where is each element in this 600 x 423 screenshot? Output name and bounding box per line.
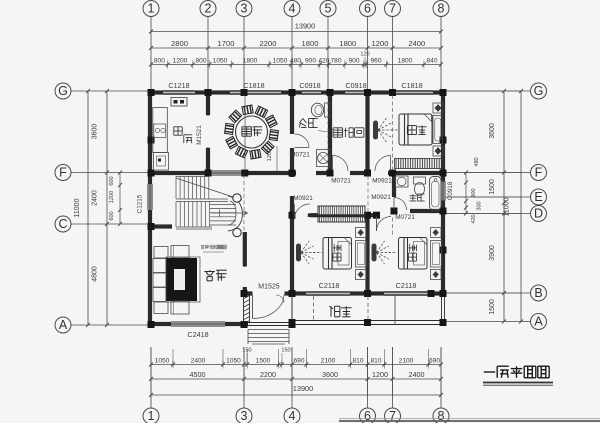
right axis circle E bbox=[446, 196, 531, 198]
bed1 wardrobe bbox=[356, 241, 367, 268]
top axis line 1 bbox=[150, 17, 152, 95]
svg-text:8: 8 bbox=[438, 2, 445, 16]
svg-text:3600: 3600 bbox=[92, 124, 99, 140]
svg-text:1500: 1500 bbox=[489, 179, 496, 195]
bottom axis line 6 bbox=[367, 347, 369, 408]
svg-text:C2118: C2118 bbox=[319, 281, 340, 290]
kitchen range hood bbox=[171, 98, 187, 107]
svg-text:2400: 2400 bbox=[191, 357, 206, 364]
right axis circle F bbox=[446, 172, 531, 174]
svg-text:C0918: C0918 bbox=[299, 81, 320, 90]
svg-text:F: F bbox=[535, 166, 543, 180]
svg-text:1: 1 bbox=[148, 409, 155, 423]
svg-text:M0921: M0921 bbox=[293, 195, 313, 202]
svg-text:900: 900 bbox=[471, 188, 477, 197]
svg-text:1200: 1200 bbox=[372, 370, 388, 379]
kitchen counter bbox=[153, 108, 168, 153]
svg-text:C1218: C1218 bbox=[168, 81, 189, 90]
svg-text:A: A bbox=[59, 318, 68, 332]
svg-text:M1525: M1525 bbox=[258, 284, 280, 291]
photo bottom edge line bbox=[339, 420, 600, 422]
bath door arc bbox=[295, 147, 310, 149]
svg-text:6: 6 bbox=[364, 2, 371, 16]
svg-text:120: 120 bbox=[360, 52, 369, 58]
master bath toilet bbox=[414, 177, 426, 184]
bottom dim row groups bbox=[151, 378, 441, 380]
bed2 nightstand a bbox=[431, 228, 442, 238]
svg-text:D: D bbox=[534, 207, 543, 221]
wall A row with window C2418 bbox=[148, 322, 171, 326]
axis 3 line through dining bbox=[244, 95, 246, 171]
svg-text:2100: 2100 bbox=[321, 357, 336, 364]
svg-text:1800: 1800 bbox=[339, 39, 356, 48]
svg-text:150: 150 bbox=[281, 348, 290, 354]
bottom axis line 3 bbox=[243, 347, 245, 408]
svg-text:C2418: C2418 bbox=[187, 330, 208, 339]
top axis line 7 bbox=[392, 17, 394, 95]
porch divider bbox=[291, 295, 293, 320]
bed2 door arc bbox=[376, 217, 378, 232]
staircase upper flight bbox=[175, 177, 177, 200]
bottom axis line 8 bbox=[440, 347, 442, 408]
top axis line 3 bbox=[243, 17, 245, 95]
svg-text:2200: 2200 bbox=[260, 370, 276, 379]
svg-text:C0918: C0918 bbox=[447, 181, 454, 200]
bottom axis line 7 bbox=[392, 347, 394, 408]
master bath tub bbox=[430, 177, 442, 211]
wall F row bbox=[148, 171, 209, 175]
svg-text:C1215: C1215 bbox=[137, 194, 144, 213]
bottom axis line 4 bbox=[291, 347, 293, 408]
label bedroom2 rotated bbox=[409, 244, 417, 261]
top-right nightstand a bbox=[433, 103, 443, 113]
wall C row stub bbox=[148, 224, 172, 228]
top dim row axes bbox=[151, 47, 441, 49]
staircase lower flight bbox=[175, 202, 177, 228]
svg-text:4: 4 bbox=[289, 2, 296, 16]
bath toilet bbox=[325, 103, 331, 117]
top axis line 6 bbox=[367, 17, 369, 95]
wall B row bedroom1 with window C2118 bbox=[290, 291, 306, 295]
window C0918 top b bbox=[345, 89, 366, 91]
left dim small segments bbox=[119, 173, 121, 225]
svg-text:840: 840 bbox=[426, 57, 437, 64]
bottom axis line 1 bbox=[150, 347, 152, 408]
left extension lines bbox=[85, 90, 151, 92]
svg-text:1800: 1800 bbox=[243, 57, 258, 64]
title first floor plan bbox=[484, 371, 495, 373]
dining chairs bbox=[269, 130, 278, 141]
svg-text:C: C bbox=[58, 217, 67, 231]
dashed axis 7 bedroom2 bbox=[392, 218, 394, 237]
top axis line 2 bbox=[207, 17, 209, 95]
wall living-hall x3 bbox=[243, 232, 247, 266]
right dim segments bbox=[503, 91, 505, 322]
right total dim 11000 bbox=[520, 91, 522, 322]
label master bath small bbox=[409, 194, 416, 201]
balcony right edge bbox=[441, 293, 443, 325]
bottom dim row detail bbox=[151, 364, 441, 366]
top axis line 4 bbox=[291, 17, 293, 95]
top axis circle 6 bbox=[360, 1, 376, 17]
wall axis4 vertical bbox=[290, 91, 294, 134]
svg-text:2800: 2800 bbox=[171, 39, 188, 48]
bottom axis circle 3 bbox=[236, 408, 252, 423]
svg-text:M0721: M0721 bbox=[290, 152, 310, 159]
svg-text:1800: 1800 bbox=[302, 39, 319, 48]
bed2 nightstand b bbox=[431, 270, 442, 280]
label living room bbox=[204, 270, 215, 281]
wall bedroom divider x6 lower bbox=[365, 215, 369, 293]
svg-text:C2118: C2118 bbox=[396, 281, 417, 290]
wall left exterior bbox=[148, 91, 152, 184]
svg-text:780: 780 bbox=[330, 57, 341, 64]
right dim small segments bbox=[465, 173, 467, 214]
svg-text:2400: 2400 bbox=[409, 370, 425, 379]
svg-text:600: 600 bbox=[109, 211, 115, 220]
svg-text:G: G bbox=[58, 84, 68, 98]
svg-text:M0721: M0721 bbox=[331, 178, 351, 185]
svg-text:M1521: M1521 bbox=[196, 125, 203, 145]
top-right nightstand b bbox=[433, 146, 443, 156]
top-right wardrobe hatched strip bbox=[395, 159, 444, 169]
svg-text:1500: 1500 bbox=[256, 357, 271, 364]
staircase rail bbox=[176, 199, 228, 229]
svg-text:3900: 3900 bbox=[489, 245, 496, 261]
hall door arc M0921 bbox=[293, 204, 295, 220]
top axis circle 5 bbox=[320, 1, 336, 17]
bottom axis circle 6 bbox=[360, 408, 376, 423]
columns at intersections bbox=[148, 89, 155, 96]
top-right wardrobe bbox=[433, 116, 443, 144]
left axis circle F bbox=[71, 172, 150, 174]
living-hall opening jambs bbox=[243, 263, 247, 267]
svg-text:2100: 2100 bbox=[399, 357, 414, 364]
bed2 fan symbol bbox=[372, 244, 377, 262]
bed1 bedroom bottom-left bbox=[323, 238, 352, 270]
svg-text:1700: 1700 bbox=[218, 39, 235, 48]
living room sofa top seats bbox=[154, 247, 168, 259]
kitchen sink bbox=[154, 124, 166, 138]
right axis circle B bbox=[446, 292, 531, 294]
window C1218 top bbox=[163, 89, 195, 91]
svg-text:960: 960 bbox=[370, 57, 381, 64]
right axis circle D bbox=[446, 213, 531, 215]
bed1 nightstand a bbox=[356, 228, 367, 238]
tv background label bbox=[201, 245, 205, 249]
svg-text:900: 900 bbox=[305, 57, 316, 64]
dashed axis 6 corridor bbox=[367, 176, 369, 214]
svg-text:4: 4 bbox=[289, 409, 296, 423]
stair direction arrow bbox=[211, 212, 247, 214]
stair newel top bbox=[233, 194, 241, 202]
bed1 nightstand b bbox=[356, 270, 367, 280]
svg-text:480: 480 bbox=[474, 157, 480, 166]
svg-text:690: 690 bbox=[429, 357, 440, 364]
svg-text:810: 810 bbox=[352, 357, 363, 364]
window C1818 top bbox=[230, 89, 281, 91]
stair opening band F wall bbox=[209, 170, 242, 172]
bottom axis circle 4 bbox=[284, 408, 300, 423]
wall B row entry bbox=[242, 291, 253, 295]
left axis circle G bbox=[71, 90, 150, 92]
svg-text:3: 3 bbox=[241, 2, 248, 16]
top axis line 8 bbox=[440, 17, 442, 95]
left dim segments bbox=[106, 91, 108, 325]
bed1 door jamb bbox=[308, 213, 312, 217]
living room sofa bottom seats bbox=[154, 302, 168, 314]
staircase turn treads bbox=[210, 204, 236, 206]
window C0918 top a bbox=[302, 89, 321, 91]
svg-text:G: G bbox=[534, 84, 544, 98]
entry steps bbox=[248, 329, 289, 331]
top axis circle 1 bbox=[143, 1, 159, 17]
title underline bbox=[483, 382, 553, 384]
svg-text:13900: 13900 bbox=[295, 22, 316, 31]
wall top G row bbox=[148, 90, 163, 94]
wall storage-bedroom x6 bbox=[365, 91, 369, 173]
top total dim 13900 bbox=[151, 31, 441, 33]
top axis circle 4 bbox=[284, 1, 300, 17]
svg-text:1050: 1050 bbox=[213, 57, 228, 64]
door M1521 jambs bbox=[206, 114, 209, 116]
bottom total dim 13900 bbox=[151, 394, 441, 396]
bed2 bedroom bottom-right bbox=[399, 238, 428, 270]
dashed axis line 3 stair bbox=[243, 175, 245, 232]
window C1818 top right bbox=[395, 89, 433, 91]
svg-text:1200: 1200 bbox=[109, 191, 115, 203]
svg-text:810: 810 bbox=[370, 357, 381, 364]
svg-text:1800: 1800 bbox=[398, 57, 413, 64]
svg-text:900: 900 bbox=[348, 57, 359, 64]
svg-text:1: 1 bbox=[148, 2, 155, 16]
label bedroom top right bbox=[407, 126, 416, 135]
svg-text:A: A bbox=[534, 315, 543, 329]
living room sofa left seats bbox=[153, 259, 166, 273]
svg-text:C1818: C1818 bbox=[243, 81, 264, 90]
porch edge A row bbox=[248, 322, 289, 324]
svg-text:1200: 1200 bbox=[372, 39, 389, 48]
svg-text:800: 800 bbox=[154, 57, 165, 64]
dining table round bbox=[236, 116, 268, 148]
balcony bottom rail bbox=[292, 320, 444, 322]
label kitchen bbox=[174, 127, 182, 135]
svg-text:480: 480 bbox=[290, 57, 301, 64]
svg-text:1050: 1050 bbox=[226, 357, 241, 364]
top-right fan symbol bbox=[373, 121, 378, 140]
svg-text:3: 3 bbox=[241, 409, 248, 423]
svg-text:C0918: C0918 bbox=[345, 81, 366, 90]
svg-text:1500: 1500 bbox=[489, 299, 496, 315]
label bedroom1 rotated bbox=[333, 244, 341, 261]
right extension lines bbox=[446, 196, 522, 198]
svg-text:600: 600 bbox=[109, 176, 115, 185]
top axis circle 7 bbox=[385, 1, 401, 17]
label storage bbox=[333, 128, 343, 137]
wall right exterior bbox=[441, 91, 445, 182]
bath washer bbox=[317, 150, 331, 167]
label balcony bbox=[329, 306, 340, 317]
staircase break line bbox=[176, 178, 242, 200]
svg-text:4800: 4800 bbox=[92, 266, 99, 282]
wall porch left hatched bbox=[243, 293, 245, 324]
bottom axis circle 8 bbox=[433, 408, 449, 423]
left total dim 11000 bbox=[87, 91, 89, 325]
svg-text:13900: 13900 bbox=[293, 384, 314, 393]
svg-text:3600: 3600 bbox=[489, 123, 496, 139]
right axis circle A bbox=[446, 321, 531, 323]
bottom axis circle 7 bbox=[385, 408, 401, 423]
window C1215 left bbox=[147, 184, 149, 210]
bottom axis circle 1 bbox=[143, 408, 159, 423]
bottom extension lines bbox=[172, 349, 174, 366]
svg-text:M0921: M0921 bbox=[372, 178, 392, 185]
svg-text:1200: 1200 bbox=[267, 149, 273, 162]
label dining bbox=[242, 127, 252, 136]
svg-text:5: 5 bbox=[325, 2, 332, 16]
svg-text:7: 7 bbox=[389, 2, 396, 16]
svg-text:300: 300 bbox=[477, 201, 483, 210]
interior dim 1200 dining bbox=[276, 146, 278, 171]
right axis circle G bbox=[446, 90, 531, 92]
svg-text:11000: 11000 bbox=[74, 198, 81, 217]
top axis circle 3 bbox=[236, 1, 252, 17]
window C2118 b and wall bbox=[384, 290, 428, 292]
svg-text:M0721: M0721 bbox=[395, 214, 415, 221]
window C0918 right bbox=[440, 182, 442, 201]
dressing door arc bbox=[390, 156, 392, 172]
svg-text:E: E bbox=[534, 190, 542, 204]
label public bath bbox=[299, 119, 306, 128]
svg-text:420: 420 bbox=[471, 214, 477, 223]
svg-text:420: 420 bbox=[318, 57, 329, 64]
wall kitchen-dining x2 bbox=[206, 91, 210, 115]
svg-text:3600: 3600 bbox=[322, 370, 338, 379]
svg-text:C1818: C1818 bbox=[401, 81, 422, 90]
wall bath-storage x330 bbox=[328, 91, 332, 173]
master bath door arc bbox=[393, 198, 395, 211]
left axis circle C bbox=[71, 223, 150, 225]
svg-text:2400: 2400 bbox=[92, 190, 99, 206]
balcony dashed axis lines bbox=[313, 296, 315, 320]
bed1 fan symbol bbox=[296, 244, 301, 262]
svg-text:B: B bbox=[534, 286, 542, 300]
hatch wardrobe block bedroom1 bbox=[318, 206, 365, 222]
top dim row detail bbox=[151, 64, 441, 66]
storage door arc bbox=[332, 156, 334, 172]
dashed axis line 5 upper bbox=[327, 95, 329, 171]
wall master bath left bbox=[392, 173, 396, 197]
svg-text:1200: 1200 bbox=[173, 57, 188, 64]
dashed axis line 7 upper bbox=[392, 95, 394, 171]
living room rug dark mass bbox=[166, 257, 200, 302]
top axis line 5 bbox=[327, 17, 329, 95]
svg-text:800: 800 bbox=[195, 57, 206, 64]
top-right bed bbox=[399, 114, 432, 145]
stair newel bottom bbox=[233, 228, 241, 236]
entry door M1525 bbox=[252, 295, 254, 319]
top axis circle 8 bbox=[433, 1, 449, 17]
bath leader line bbox=[318, 131, 328, 133]
svg-text:F: F bbox=[59, 166, 67, 180]
svg-text:1050: 1050 bbox=[273, 57, 288, 64]
kitchen lower cabinet bbox=[154, 153, 169, 171]
svg-text:2: 2 bbox=[205, 2, 212, 16]
master bath basin bbox=[396, 176, 409, 187]
svg-text:M0921: M0921 bbox=[371, 194, 391, 201]
bed2 wardrobe bbox=[431, 241, 442, 268]
top axis circle 2 bbox=[200, 1, 216, 17]
svg-text:4500: 4500 bbox=[190, 370, 206, 379]
svg-text:690: 690 bbox=[293, 357, 304, 364]
left axis circle A bbox=[71, 324, 150, 326]
wall D row bbox=[290, 213, 295, 217]
svg-text:1050: 1050 bbox=[155, 357, 170, 364]
svg-text:2200: 2200 bbox=[260, 39, 277, 48]
svg-text:2400: 2400 bbox=[408, 39, 425, 48]
